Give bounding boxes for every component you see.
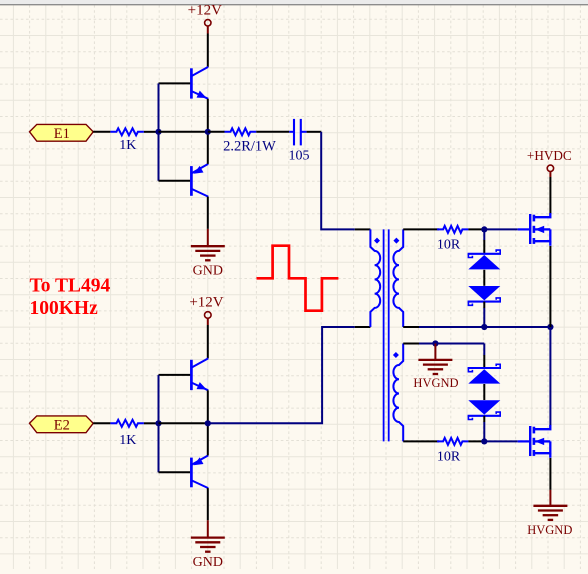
ground GND (upper) [191,229,225,279]
wire pin primary bottom [355,326,371,328]
wire node to output (upper) [159,131,208,133]
wire node to M2 gate [484,440,517,442]
node junction output (lower) [205,420,211,426]
wire node to Q2 emitter [207,132,209,164]
wire sec2 top pin [403,343,419,345]
transistor Q2 PNP (upper) [191,164,208,197]
node junction base rail (lower) [155,420,161,426]
resistor R4 10R (upper) [437,226,469,253]
node junction sec2 bottom [481,438,487,444]
wire Q3 emitter to node [207,390,209,423]
power port +HVDC [527,148,572,177]
wire R3 to C1 [256,131,289,133]
svg-text:1K: 1K [119,433,136,448]
wire Q1 base [159,82,191,84]
wire pin to primary top [355,228,371,230]
transformer T1 primary polarity dot [374,238,380,244]
svg-text:+12V: +12V [189,295,223,311]
wire diode column top [483,229,485,240]
wire output to primary bottom [208,327,355,423]
wire M2 drain from junction [549,327,551,426]
wire diode column bottom (lower) [483,416,485,422]
wire base rail (upper) [158,83,160,180]
svg-text:+12V: +12V [188,3,222,19]
wire Q3 base [159,374,191,376]
mosfet M1 NMOS (upper) [518,213,551,246]
wire R5 to node [468,440,484,442]
power port +12V (upper) [188,3,222,34]
node junction diode top (upper) [481,226,487,232]
wire R1 to node [144,131,159,133]
svg-text:2.2R/1W: 2.2R/1W [223,138,276,154]
node junction HVGND tap [432,340,438,346]
wire between D1 D2 [483,270,485,286]
wire +12V to Q1 collector [207,34,209,67]
wire Q1 emitter to node [207,99,209,132]
transformer T2 secondary winding [393,344,403,442]
wire E2 to R2 [93,422,110,424]
transformer T1 primary winding [370,229,380,327]
svg-text:1K: 1K [119,138,136,153]
wire +HVDC to M1 drain [549,177,551,214]
wire node to Q4 emitter [207,423,209,455]
wire sec1 top to R4 [403,228,439,230]
svg-text:10R: 10R [437,238,461,253]
transformer T1 secondary polarity dot [393,238,399,244]
wire Q2 collector to GND [207,197,209,229]
wire sec2 bottom to R5 [403,440,439,442]
wire sec2 top row [419,343,484,345]
diode D1 schottky (up) [468,250,501,269]
node junction output (upper) [205,129,211,135]
svg-text:HVGND: HVGND [527,523,572,537]
wire Q2 base [159,180,191,182]
wire +12V to Q3 collector [207,325,209,358]
diode D4 schottky (down) [468,400,501,419]
svg-text:10R: 10R [437,450,461,465]
wire M1 source down [549,246,551,327]
svg-text:105: 105 [289,149,310,164]
wire node to output (lower) [159,422,208,424]
wire sec1 bottom row [419,326,484,328]
wire E1 to R1 [93,131,110,133]
svg-text:100KHz: 100KHz [30,298,99,319]
ground HVGND (upper) [413,344,458,390]
capacitor C1 105 [289,119,310,164]
wire between D3 D4 [483,384,485,400]
svg-text:+HVDC: +HVDC [527,148,572,163]
wire diode column top (lower) [483,344,485,356]
wire M2 source down [549,458,551,490]
svg-text:GND: GND [193,263,223,278]
power port +12V (lower) [189,295,223,325]
wire down to primary top [321,132,355,230]
ground HVGND (lower) [527,490,572,537]
node junction base rail (upper) [155,129,161,135]
svg-text:E1: E1 [54,126,70,142]
transistor Q1 NPN (upper) [191,67,208,99]
wire base rail (lower) [158,375,160,472]
node junction sec1 bottom [481,324,487,330]
wire C1 to corner [307,131,322,133]
svg-text:To TL494: To TL494 [30,275,111,296]
diode D3 schottky (up) [468,364,501,383]
resistor R1 1K (upper) [110,128,143,153]
wire R2 to node [144,422,159,424]
transistor Q4 PNP (lower) [191,455,208,488]
diode D2 schottky (down) [468,286,501,305]
wire node to M1 gate [484,228,517,230]
transformer T2 secondary polarity dot [393,352,399,358]
wire R4 to node [468,228,484,230]
mosfet M2 NMOS (lower) [518,425,551,458]
svg-text:E2: E2 [54,418,70,434]
wire Q4 collector to GND [207,488,209,520]
transformer T1 secondary winding [393,229,403,327]
node junction M1 source / M2 drain [547,324,553,330]
port E2 [30,416,94,434]
svg-text:GND: GND [193,555,223,569]
resistor R3 2.2R/1W [223,128,276,154]
svg-text:HVGND: HVGND [413,376,458,390]
wire output to R3 [208,131,225,133]
wire Q4 base [159,471,191,473]
transformer core [384,229,389,441]
transistor Q3 NPN (lower) [191,358,208,390]
top gray bar [0,0,588,4]
resistor R5 10R (lower) [437,438,469,465]
wire sec1 bottom pin [403,326,419,328]
resistor R2 1K (lower) [110,420,143,448]
annotation waveform [257,246,339,311]
port E1 [30,124,94,142]
ground GND (lower) [191,520,225,570]
wire sec1 bottom to M1 source [484,326,550,328]
wire diode column bottom [483,302,485,308]
